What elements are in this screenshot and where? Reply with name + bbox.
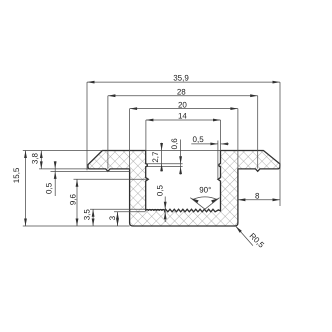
dimension 28 line <box>108 95 258 97</box>
leader R0,5 line <box>236 226 253 245</box>
ext line: top surface, left + across channel gap <box>23 150 103 152</box>
dimension 35,9 line <box>87 81 280 83</box>
svg-text:15,5: 15,5 <box>12 167 21 183</box>
ext line: serration crest (3.5) <box>90 208 146 210</box>
svg-text:0,6: 0,6 <box>170 138 179 150</box>
ext line: 35.9/8 right vertical <box>279 82 281 206</box>
dimension 3 line <box>117 212 119 226</box>
svg-text:0,5: 0,5 <box>155 184 164 196</box>
angle 90 flank lines <box>190 198 205 210</box>
ext line: ledge upper (2.7/0.6) <box>147 163 183 165</box>
svg-text:35,9: 35,9 <box>173 73 189 82</box>
dimension 20 line <box>130 108 238 110</box>
ext line: 28 right vertical through tab <box>257 96 259 169</box>
dimension 0,5 (rib) line <box>54 161 56 196</box>
svg-text:3,8: 3,8 <box>30 152 39 164</box>
ext line: 14 left vertical <box>145 120 147 151</box>
dimension 20 arrows <box>130 107 138 110</box>
ext line: ledge lower (0.6) <box>147 166 183 168</box>
ext line: bottom surface left <box>23 225 130 227</box>
svg-text:2,7: 2,7 <box>151 151 160 163</box>
ext line: 14 right vertical <box>220 120 222 151</box>
dimension 3,5 arrows <box>92 209 95 217</box>
dimension 0,5 (serration) arrows <box>164 202 167 210</box>
dimension 0,6 arrows <box>179 156 182 164</box>
ext line: tab underside left <box>39 168 89 170</box>
dimension 3,8 arrows <box>40 151 43 159</box>
dimension 0,5 (right wall step) arrows <box>210 143 218 146</box>
dimension 3,8 line <box>40 151 42 169</box>
svg-text:20: 20 <box>178 100 187 109</box>
svg-text:0,5: 0,5 <box>44 182 53 194</box>
dimension 9,6 arrows <box>76 179 79 187</box>
dimension 3 arrows <box>116 212 119 220</box>
dimension 2,7 line <box>161 143 163 172</box>
ext line: 20 right vertical through tab <box>237 109 239 169</box>
svg-text:0,5: 0,5 <box>193 135 205 144</box>
dimension 15,5 arrows <box>24 151 27 159</box>
ext line: rib vertex level left <box>51 170 130 172</box>
dimension 2,7 arrows <box>160 143 163 151</box>
svg-text:14: 14 <box>178 112 187 121</box>
dimension 0,6 line <box>180 140 182 175</box>
dimension 0,5 (rib) arrows <box>54 161 57 169</box>
svg-text:90°: 90° <box>199 186 211 195</box>
ext line: notch level (9.6) <box>74 178 149 180</box>
profile cross-section (hatched aluminium extrusion) <box>88 151 280 227</box>
dimension 28 arrows <box>108 94 116 97</box>
ext line: 35.9 left vertical <box>86 82 88 170</box>
dimension 14 arrows <box>146 119 154 122</box>
dimension 0,5 (serration) line <box>164 197 166 223</box>
svg-text:28: 28 <box>177 87 186 96</box>
ext line: serration valley (3) <box>114 211 146 213</box>
dimension 14 line <box>146 119 221 121</box>
dimension 35,9 arrows <box>87 81 95 84</box>
dimension 15,5 line <box>25 151 27 227</box>
dimension 9,6 line <box>76 179 78 226</box>
svg-text:8: 8 <box>255 191 260 200</box>
svg-text:3: 3 <box>108 215 117 220</box>
angle 90 arc <box>193 197 218 200</box>
dimension 0,5 (right wall step) leader+line <box>191 143 218 145</box>
dimension 8 line <box>238 199 280 201</box>
dimension 3,5 line <box>92 209 94 226</box>
ext line: right notch apex vertical (0.5) <box>217 141 219 180</box>
svg-text:R0,5: R0,5 <box>248 231 267 250</box>
ext line: 20 left vertical through tab <box>129 109 131 169</box>
svg-text:3,5: 3,5 <box>83 209 92 221</box>
svg-text:9,6: 9,6 <box>69 193 78 205</box>
dimension 8 arrows <box>238 198 246 201</box>
angle 90 arrows <box>191 198 198 203</box>
ext line: 28 left vertical through tab <box>107 96 109 169</box>
leader R0,5 arrow <box>236 226 242 233</box>
